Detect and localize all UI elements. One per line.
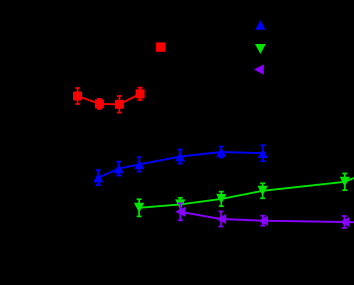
legend purple left-triangle — [254, 64, 264, 74]
red square marker 2 — [95, 99, 104, 108]
blue up-triangle marker 1 — [93, 173, 103, 183]
green series point 3 error bar — [219, 192, 224, 207]
red square marker 1 — [73, 92, 82, 101]
green down-triangle marker 1 — [134, 203, 144, 213]
red series point 1 error bar — [75, 88, 80, 104]
purple series point 4 error bar — [342, 216, 347, 228]
blue series line — [98, 152, 263, 178]
blue series point 4 error bar — [178, 150, 183, 164]
purple left-triangle marker 1 — [175, 207, 185, 217]
red square marker 4 — [136, 89, 145, 98]
red series point 2 error bar — [97, 99, 102, 109]
red series line — [78, 94, 141, 105]
purple left-triangle marker 4 — [339, 217, 349, 227]
blue up-triangle marker 6 — [258, 148, 268, 158]
green down-triangle marker 3 — [216, 194, 226, 204]
red square marker 3 — [115, 100, 124, 109]
green series point 2 error bar — [178, 198, 183, 211]
green down-triangle marker 4 — [257, 186, 267, 196]
blue up-triangle marker 3 — [134, 160, 144, 170]
green series point 4 error bar — [260, 183, 265, 198]
blue series point 5 error bar — [219, 147, 224, 158]
purple series point 3 error bar — [260, 216, 265, 226]
green series point 1 error bar — [137, 199, 142, 216]
red series point 4 error bar — [138, 88, 143, 100]
blue series point 6 error bar — [260, 145, 265, 161]
blue up-triangle marker 4 — [175, 152, 185, 162]
green series line — [139, 178, 354, 208]
purple series line — [180, 212, 354, 222]
purple left-triangle marker 2 — [216, 214, 226, 224]
green down-triangle marker 5 — [340, 177, 350, 187]
blue up-triangle marker 2 — [114, 164, 124, 174]
green series point 5 error bar — [342, 173, 347, 190]
legend red square — [156, 42, 165, 51]
purple series point 1 error bar — [178, 203, 183, 220]
blue series point 3 error bar — [137, 157, 142, 171]
blue up-triangle marker 5 — [216, 147, 226, 157]
blue series point 1 error bar — [96, 170, 101, 185]
legend green down-triangle — [255, 44, 266, 54]
blue series point 2 error bar — [116, 162, 121, 176]
red series point 3 error bar — [117, 96, 122, 113]
purple left-triangle marker 3 — [258, 216, 268, 226]
purple series point 2 error bar — [219, 212, 224, 227]
legend blue up-triangle — [255, 20, 265, 30]
green down-triangle marker 2 — [175, 199, 185, 209]
